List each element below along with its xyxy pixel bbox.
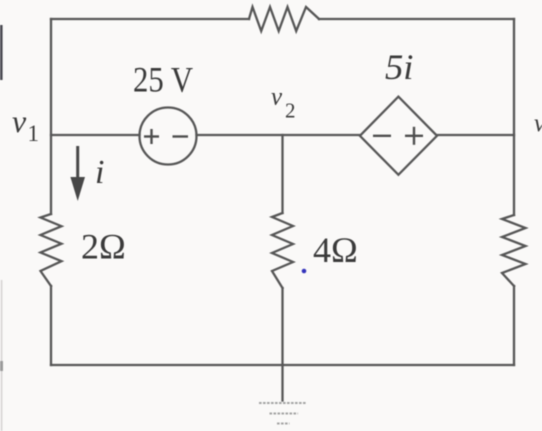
resistor top (unlabeled) <box>249 7 319 31</box>
wire middle vertical lower <box>281 288 283 365</box>
node label v2 <box>271 84 296 123</box>
wire right vertical upper <box>513 19 515 215</box>
scan artifact: darker blip left edge <box>0 361 3 371</box>
node dot (blue speck) <box>302 269 307 274</box>
dependent source 5i diamond <box>360 97 437 175</box>
wire 5i source to right node <box>437 134 514 136</box>
node label v1 <box>12 103 39 146</box>
resistor R 2ohm zigzag <box>41 214 62 286</box>
wire left vertical lower <box>50 286 52 365</box>
voltage source 25V circle <box>140 108 197 165</box>
svg-text:2: 2 <box>285 99 296 123</box>
wire top-right horizontal <box>319 18 514 20</box>
wire middle vertical upper (node v2 down) <box>281 135 283 213</box>
wire left vertical upper <box>50 19 52 214</box>
resistor right (unlabeled) zigzag <box>502 215 526 286</box>
svg-text:v: v <box>271 84 283 111</box>
wire bottom horizontal <box>51 364 514 366</box>
wire ground stub <box>281 365 283 401</box>
wire 25V source to node v2 <box>197 134 361 136</box>
svg-text:25 V: 25 V <box>133 60 193 100</box>
wire node v1 to 25V source <box>51 134 140 136</box>
scan artifact: faint line bottom left <box>1 280 3 431</box>
polarity marks inside 25V source <box>144 129 188 144</box>
wire top-left horizontal <box>51 18 249 20</box>
scan artifact: dark bar left edge <box>0 25 3 80</box>
svg-text:i: i <box>95 154 104 191</box>
wire right vertical lower <box>513 286 515 365</box>
svg-text:4Ω: 4Ω <box>313 230 358 270</box>
svg-text:2Ω: 2Ω <box>81 227 126 267</box>
ground symbol <box>259 403 307 424</box>
svg-text:1: 1 <box>28 121 40 146</box>
resistor R 4ohm zigzag <box>272 213 293 288</box>
polarity marks inside 5i source <box>373 127 423 145</box>
svg-text:v: v <box>534 110 542 137</box>
svg-text:5i: 5i <box>385 47 414 87</box>
current arrow i <box>70 146 85 201</box>
svg-text:v: v <box>12 103 27 139</box>
